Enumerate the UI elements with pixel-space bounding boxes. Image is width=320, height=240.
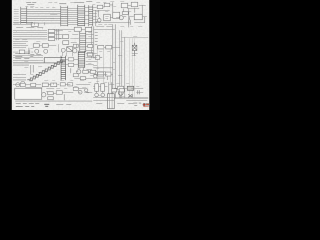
wire right bottom rails xyxy=(93,88,148,100)
resistor R35 xyxy=(88,45,93,48)
wire enclosure faint verticals xyxy=(130,38,135,97)
wire address bus middle-left xyxy=(13,31,47,39)
resistor R14 xyxy=(87,53,93,56)
diode D2 xyxy=(128,94,132,97)
wire cluster joins mid-right xyxy=(93,74,113,80)
transistor Q10 xyxy=(42,93,46,97)
relay K2 xyxy=(131,2,138,7)
label: scattered reference designators xyxy=(16,1,142,96)
wire U1 to U2 bus xyxy=(68,8,78,24)
transistor Q12 xyxy=(118,88,123,97)
capacitor C2 xyxy=(28,48,30,55)
label: center footnote xyxy=(56,103,71,105)
resistor R42 xyxy=(98,72,104,76)
transformer T1 xyxy=(107,94,114,109)
label: row2 refs xyxy=(15,38,27,40)
resistor R25 xyxy=(73,87,78,90)
resistor network RN1 xyxy=(48,29,55,32)
resistor R2 xyxy=(97,5,103,8)
resistor R36 xyxy=(68,58,74,61)
resistor R22 xyxy=(48,92,54,95)
label: J1 pin names xyxy=(14,9,19,23)
wire bottom cluster joins xyxy=(53,89,92,101)
wire rows to bottom cluster xyxy=(13,85,42,88)
wire main vertical bus pair xyxy=(113,24,116,98)
transistor Q15 xyxy=(94,75,97,78)
wire vertical middle feeds xyxy=(96,2,130,27)
resistor R24 xyxy=(56,91,62,95)
crystal X1 xyxy=(132,43,137,56)
capacitor C1 xyxy=(129,17,131,25)
label: bottom right captions xyxy=(96,102,133,105)
wire long bottom rail xyxy=(15,100,92,102)
resistor R9 xyxy=(42,44,48,48)
label: bottom part numbers xyxy=(16,104,40,107)
label: U2 caption xyxy=(73,2,92,3)
capacitor C4 xyxy=(93,56,102,60)
transistor Q4 xyxy=(44,49,48,53)
resistor R28 xyxy=(118,86,124,90)
wire top rail middle xyxy=(93,28,115,30)
resistor R40 xyxy=(20,83,25,86)
resistor R13 xyxy=(106,46,112,49)
resistor R26 xyxy=(95,84,99,92)
label: pin column marks xyxy=(95,32,98,44)
wire bottom rail1 xyxy=(48,84,90,86)
resistor R1 xyxy=(31,23,38,26)
label: bus net names xyxy=(30,7,55,9)
resistor R23 xyxy=(48,97,54,100)
wire net A xyxy=(97,5,113,10)
transistor Q1 xyxy=(95,17,101,22)
wire data bus J1 to U1 xyxy=(27,9,61,23)
wire long verticals center-right xyxy=(97,46,110,84)
wire enclosure bottom edge xyxy=(113,97,149,99)
wire lower-left stubs xyxy=(13,75,26,80)
label: U1 caption xyxy=(59,3,66,5)
resistor R31 xyxy=(119,89,124,92)
resistor R30 xyxy=(112,89,117,92)
resistor R18 xyxy=(42,83,48,87)
resistor R38 xyxy=(87,70,92,73)
resistor R7 xyxy=(19,50,25,54)
resistor R17 xyxy=(80,77,86,80)
wire mid top rail xyxy=(53,28,85,30)
wire mid-right rail xyxy=(93,67,113,69)
resistor R34 xyxy=(73,44,78,47)
resistor R20 xyxy=(60,83,65,86)
diode D1 xyxy=(67,47,73,52)
resistor R12 xyxy=(98,46,104,49)
label: address row captions xyxy=(16,27,43,29)
IC U3 ladder xyxy=(80,32,86,53)
label: logo text xyxy=(133,103,141,105)
wire Q6 joins xyxy=(71,34,79,48)
wire U5 right nets xyxy=(83,53,97,73)
resistor R37 xyxy=(68,63,74,66)
wire top right nets xyxy=(123,5,146,14)
relay K1 xyxy=(121,3,128,8)
IC U5 ladder xyxy=(78,51,85,68)
connector J1 xyxy=(21,7,27,24)
wire row y78 xyxy=(74,77,94,79)
wire vertical feed to middle xyxy=(92,26,94,58)
IC U2 resistor ladder xyxy=(78,5,85,27)
IC U6 xyxy=(134,14,142,20)
transistor Q5 xyxy=(61,48,65,52)
wire signal rows xyxy=(13,55,43,60)
resistor R41 xyxy=(31,83,36,86)
wire row under bus xyxy=(13,65,33,75)
resistor R11 xyxy=(63,41,69,45)
resistor R15 xyxy=(83,70,89,73)
wire mid connections xyxy=(55,29,63,40)
resistor R43 xyxy=(105,72,111,76)
label: sheet caption top-left xyxy=(26,3,36,5)
wire U3 outputs xyxy=(86,34,94,50)
resistor R29 xyxy=(127,86,134,90)
IC U2b resistor ladder xyxy=(89,5,93,26)
transistor Q9 xyxy=(21,81,25,85)
transistor Q13 xyxy=(78,90,82,94)
logo publisher mark xyxy=(143,103,149,106)
resistor R3 xyxy=(104,3,110,6)
wire left stubs row2 xyxy=(13,41,28,47)
wire enclosure verticals xyxy=(120,30,125,98)
resistor network RN2 xyxy=(48,33,55,36)
transistor Q6 xyxy=(73,49,77,53)
IC U8 xyxy=(113,12,120,18)
resistor R39 xyxy=(73,74,78,77)
IC U4 ladder xyxy=(61,56,66,81)
transistor Q7 xyxy=(77,70,81,74)
wire net to enclosure xyxy=(104,46,120,48)
wire U2b outputs xyxy=(93,7,97,22)
switch bank S1 staircase xyxy=(27,57,65,80)
wire ladder joins xyxy=(66,59,79,73)
label: signal list rows xyxy=(15,54,41,59)
wire row y72 xyxy=(76,71,106,73)
resistor R6 xyxy=(122,12,128,15)
resistor network RN3 xyxy=(48,37,55,40)
wire extra stubs and junction dots xyxy=(13,14,143,92)
IC U7 xyxy=(104,14,111,21)
wire lower stubs left xyxy=(13,22,33,25)
resistor R32 xyxy=(74,27,81,31)
resistor R21 xyxy=(68,83,73,86)
IC U1 resistor ladder xyxy=(61,6,68,27)
transistor Q14 xyxy=(85,89,88,92)
label: cluster refs xyxy=(98,24,112,26)
transistor Q11 xyxy=(95,93,105,97)
resistor R8 xyxy=(33,44,39,48)
label: crystal value C54 xyxy=(132,54,138,56)
transistor Q2 xyxy=(116,16,126,20)
wire right cluster joins xyxy=(113,17,147,23)
box PCB outline xyxy=(15,88,42,99)
wire bottom right nets xyxy=(93,82,112,94)
transistor Q3 xyxy=(35,49,39,53)
resistor R19 xyxy=(51,83,57,87)
label: dT note xyxy=(44,104,49,106)
wire heavy bus row xyxy=(13,62,59,64)
wire enclosure top edge xyxy=(121,36,148,38)
resistor R27 xyxy=(101,84,105,92)
capacitor C3 xyxy=(138,90,140,94)
resistor R10 xyxy=(63,35,69,39)
resistor R16 xyxy=(90,70,96,73)
transistor Q8 xyxy=(16,83,20,87)
wire U2 to U2b xyxy=(85,7,89,23)
resistor R33 xyxy=(85,27,92,31)
